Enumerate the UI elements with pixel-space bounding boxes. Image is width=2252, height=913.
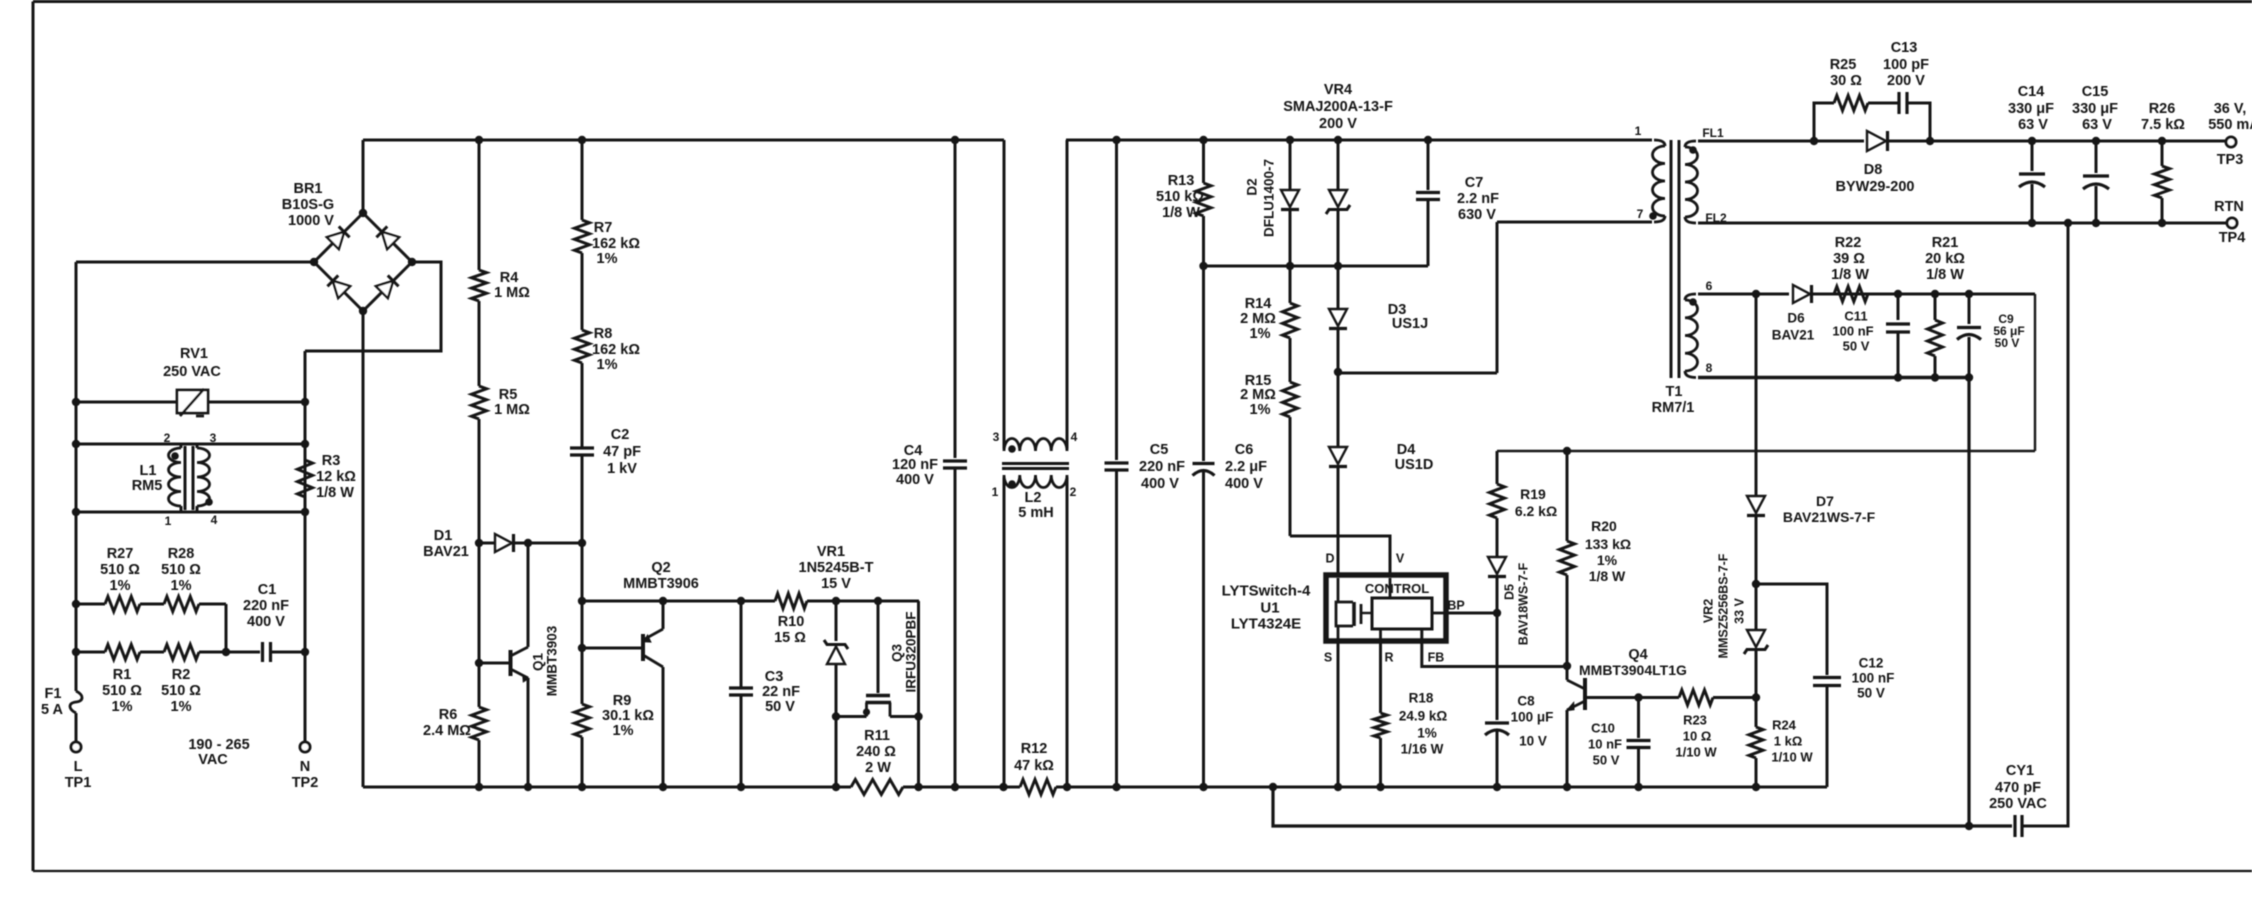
transistor Q2 [582, 647, 643, 650]
svg-text:R22: R22 [1835, 235, 1862, 251]
svg-text:RTN: RTN [2214, 199, 2244, 215]
svg-text:VR4: VR4 [1324, 82, 1352, 98]
svg-text:DFLU1400-7: DFLU1400-7 [1262, 159, 1277, 237]
snubber R25 C13 [1814, 103, 1834, 141]
svg-text:47 kΩ: 47 kΩ [1014, 758, 1054, 774]
wire output return FL2 [1698, 222, 2227, 225]
capacitor C12 [1756, 584, 1827, 675]
svg-text:1/10 W: 1/10 W [1675, 745, 1717, 760]
svg-text:Q4: Q4 [1628, 647, 1647, 663]
svg-text:C6: C6 [1235, 442, 1254, 458]
svg-text:C5: C5 [1150, 442, 1169, 458]
svg-text:1: 1 [992, 485, 999, 499]
svg-text:D7: D7 [1816, 493, 1834, 509]
svg-text:RM7/1: RM7/1 [1652, 400, 1695, 416]
svg-text:120 nF: 120 nF [892, 457, 938, 473]
svg-text:39 Ω: 39 Ω [1833, 251, 1865, 267]
mosfet Q3 [877, 601, 880, 693]
svg-text:510 Ω: 510 Ω [161, 562, 201, 578]
svg-text:47 pF: 47 pF [603, 444, 641, 460]
svg-text:TP2: TP2 [292, 775, 319, 791]
wire N to bridge right arm [305, 262, 441, 351]
svg-text:C3: C3 [765, 669, 784, 685]
svg-text:162 kΩ: 162 kΩ [592, 342, 640, 358]
svg-text:R6: R6 [439, 707, 458, 723]
svg-text:10 nF: 10 nF [1588, 737, 1622, 752]
resistor R3 [304, 444, 307, 460]
svg-text:50 V: 50 V [1593, 753, 1620, 768]
inductor L2 [1003, 140, 1006, 449]
svg-text:10 V: 10 V [1519, 734, 1547, 749]
transistor Q1 [479, 662, 510, 665]
diode D3 [1337, 266, 1340, 308]
border frame [33, 0, 2252, 3]
svg-text:C11: C11 [1844, 309, 1867, 324]
capacitor C6 [1202, 266, 1205, 461]
svg-text:LYT4324E: LYT4324E [1231, 615, 1301, 632]
svg-text:250 VAC: 250 VAC [1989, 796, 2047, 812]
svg-text:Q2: Q2 [651, 560, 670, 576]
resistor R13 [1202, 140, 1205, 183]
svg-text:R10: R10 [778, 614, 805, 630]
capacitor C9 [1968, 294, 1971, 324]
zener diode VR1 [835, 601, 838, 641]
svg-text:CY1: CY1 [2006, 763, 2034, 779]
svg-text:R4: R4 [500, 270, 519, 286]
capacitor C5 [1115, 140, 1118, 460]
svg-text:US1D: US1D [1395, 457, 1434, 473]
svg-text:1/8 W: 1/8 W [1831, 267, 1869, 283]
capacitor C3 [740, 601, 743, 688]
svg-text:7.5 kΩ: 7.5 kΩ [2141, 117, 2185, 133]
svg-text:630 V: 630 V [1458, 207, 1496, 223]
svg-text:F1: F1 [45, 686, 62, 702]
wire L input vertical [75, 262, 78, 691]
svg-text:C7: C7 [1465, 175, 1484, 191]
svg-text:550 mA: 550 mA [2208, 117, 2252, 133]
svg-text:1: 1 [165, 514, 172, 528]
svg-text:1000 V: 1000 V [288, 213, 334, 229]
wire Q2 node [581, 543, 584, 648]
terminal TP1 [71, 742, 81, 752]
capacitor C10 [1634, 693, 1642, 701]
capacitor C11 [1897, 294, 1900, 320]
svg-text:3: 3 [993, 430, 1000, 444]
svg-text:510 kΩ: 510 kΩ [1156, 189, 1204, 205]
svg-text:R23: R23 [1683, 713, 1707, 728]
svg-text:FL1: FL1 [1702, 126, 1724, 140]
svg-text:1 MΩ: 1 MΩ [494, 402, 530, 418]
svg-text:1 kΩ: 1 kΩ [1774, 734, 1803, 749]
svg-text:1%: 1% [171, 578, 192, 594]
svg-text:12 kΩ: 12 kΩ [316, 469, 356, 485]
svg-text:400 V: 400 V [247, 614, 285, 630]
svg-text:1%: 1% [1250, 326, 1271, 342]
svg-text:15 V: 15 V [821, 576, 851, 592]
svg-text:50 V: 50 V [765, 699, 795, 715]
svg-text:R11: R11 [864, 728, 890, 744]
resistor R6 [478, 663, 481, 707]
diode D6 [1793, 285, 1810, 303]
svg-text:63 V: 63 V [2082, 117, 2112, 133]
svg-text:R24: R24 [1772, 718, 1797, 733]
svg-text:1/8 W: 1/8 W [316, 485, 354, 501]
svg-text:1 kV: 1 kV [607, 461, 637, 477]
svg-text:330 μF: 330 μF [2008, 101, 2054, 117]
svg-text:2.4 MΩ: 2.4 MΩ [423, 723, 471, 739]
resistor R2 [164, 645, 199, 660]
resistor R4 [478, 140, 481, 270]
svg-text:1N5245B-T: 1N5245B-T [799, 560, 874, 576]
resistor R5 [478, 301, 481, 386]
svg-text:D4: D4 [1397, 442, 1416, 458]
wire V pin [1290, 536, 1390, 574]
svg-text:1/8 W: 1/8 W [1926, 267, 1964, 283]
svg-text:IRFU320PBF: IRFU320PBF [904, 611, 919, 692]
resistor R10 [775, 594, 807, 609]
svg-text:V: V [1396, 551, 1405, 565]
svg-text:100 μF: 100 μF [1511, 710, 1554, 725]
svg-text:B10S-G: B10S-G [282, 197, 334, 213]
svg-text:200 V: 200 V [1319, 116, 1357, 132]
svg-text:Q1: Q1 [531, 653, 546, 672]
svg-text:5 mH: 5 mH [1018, 505, 1053, 521]
wire top rail right [1066, 139, 1652, 142]
svg-text:R1: R1 [113, 667, 132, 683]
resistor R23 [1639, 696, 1680, 699]
wire gate node [582, 600, 775, 603]
wire S pin [1337, 641, 1340, 787]
wire R28 bend [225, 604, 228, 652]
terminal TP3 [2226, 137, 2236, 147]
resistor R20 [1566, 451, 1569, 541]
resistor R12 [1020, 780, 1056, 795]
svg-text:D: D [1325, 551, 1334, 565]
svg-text:BAV18WS-7-F: BAV18WS-7-F [1516, 562, 1530, 645]
zener diode VR4 [1337, 140, 1340, 190]
svg-text:RV1: RV1 [180, 346, 208, 362]
capacitor CY1 [2013, 815, 2016, 837]
svg-text:R8: R8 [594, 326, 613, 342]
svg-text:1 MΩ: 1 MΩ [494, 285, 530, 301]
svg-text:L: L [74, 759, 83, 775]
svg-text:S: S [1324, 650, 1332, 664]
svg-text:10 Ω: 10 Ω [1683, 729, 1712, 744]
svg-text:R18: R18 [1409, 691, 1434, 706]
svg-text:MMBT3906: MMBT3906 [623, 576, 699, 592]
svg-text:133 kΩ: 133 kΩ [1585, 536, 1631, 552]
svg-text:240 Ω: 240 Ω [856, 744, 896, 760]
wire BP [1446, 612, 1497, 615]
resistor R14 [1289, 266, 1292, 303]
resistor R27 [76, 603, 105, 606]
resistor R26 [2161, 141, 2164, 166]
svg-text:4: 4 [1071, 430, 1078, 444]
svg-text:VAC: VAC [198, 752, 228, 768]
svg-text:5 A: 5 A [41, 702, 64, 718]
wire clamp bottom [1204, 265, 1429, 268]
svg-text:30.1 kΩ: 30.1 kΩ [602, 708, 654, 724]
resistor R19 [1496, 451, 1499, 484]
svg-text:470 pF: 470 pF [1995, 780, 2041, 796]
wire bridge bottom to ground rail [362, 311, 365, 787]
diode D7 [1755, 294, 1758, 495]
wire N input vertical [304, 351, 307, 742]
capacitor C2 [581, 363, 584, 448]
svg-text:US1J: US1J [1392, 316, 1428, 332]
svg-text:L1: L1 [140, 463, 157, 479]
svg-text:22 nF: 22 nF [762, 684, 800, 700]
wire D3 to snubber return [1338, 372, 1497, 375]
svg-text:D6: D6 [1787, 311, 1805, 326]
svg-text:R14: R14 [1245, 296, 1272, 312]
svg-text:D1: D1 [434, 528, 453, 544]
svg-text:R21: R21 [1932, 235, 1959, 251]
svg-text:2: 2 [164, 431, 171, 445]
svg-text:400 V: 400 V [1225, 476, 1263, 492]
svg-text:100 nF: 100 nF [1832, 324, 1873, 339]
svg-text:SMAJ200A-13-F: SMAJ200A-13-F [1283, 99, 1393, 115]
diode D2 [1289, 140, 1292, 190]
svg-text:190 - 265: 190 - 265 [188, 737, 249, 753]
terminal TP4 [2227, 218, 2237, 228]
svg-text:R20: R20 [1591, 518, 1617, 534]
svg-text:2.2 nF: 2.2 nF [1457, 191, 1499, 207]
svg-text:15 Ω: 15 Ω [774, 630, 806, 646]
capacitor C4 [954, 140, 957, 458]
wire top rail left [363, 139, 1004, 142]
wire lower return [1273, 787, 2012, 826]
svg-text:MMSZ5256BS-7-F: MMSZ5256BS-7-F [1716, 553, 1730, 658]
svg-text:C10: C10 [1591, 721, 1615, 736]
diode D4 [1337, 372, 1340, 446]
svg-text:63 V: 63 V [2018, 117, 2048, 133]
svg-text:R28: R28 [168, 546, 195, 562]
svg-text:2 MΩ: 2 MΩ [1240, 387, 1276, 403]
resistor R15 [1289, 338, 1292, 382]
svg-text:50 V: 50 V [1843, 339, 1870, 354]
svg-text:TP3: TP3 [2217, 152, 2244, 168]
capacitor C14 [2031, 141, 2034, 171]
svg-text:1%: 1% [171, 699, 192, 715]
svg-text:1%: 1% [110, 578, 131, 594]
svg-text:1%: 1% [597, 251, 618, 267]
svg-text:R3: R3 [322, 453, 341, 469]
svg-text:R12: R12 [1021, 741, 1048, 757]
wire aux return [1698, 376, 1969, 379]
svg-text:C12: C12 [1859, 656, 1884, 671]
resistor R18 [1379, 641, 1382, 713]
svg-text:50 V: 50 V [1857, 686, 1885, 701]
svg-text:24.9 kΩ: 24.9 kΩ [1399, 709, 1448, 724]
diode D5 [1496, 518, 1499, 556]
svg-text:220 nF: 220 nF [1139, 459, 1185, 475]
svg-text:250 VAC: 250 VAC [163, 364, 221, 380]
svg-text:TP1: TP1 [65, 775, 92, 791]
svg-text:100 nF: 100 nF [1852, 671, 1895, 686]
wire FB pin [1422, 630, 1567, 667]
transformer T1 [1670, 140, 1673, 378]
svg-text:MMBT3903: MMBT3903 [545, 625, 560, 696]
svg-text:R7: R7 [594, 220, 613, 236]
svg-text:BP: BP [1447, 598, 1464, 612]
svg-text:162 kΩ: 162 kΩ [592, 236, 640, 252]
svg-text:R: R [1384, 650, 1393, 664]
svg-text:BAV21WS-7-F: BAV21WS-7-F [1783, 509, 1876, 525]
wire aux positive [1698, 293, 1789, 296]
svg-text:C13: C13 [1891, 40, 1918, 56]
fuse F1 [70, 691, 82, 713]
svg-text:D2: D2 [1245, 178, 1260, 195]
capacitor C1 [259, 651, 260, 654]
wire output positive [1698, 140, 1864, 143]
svg-text:400 V: 400 V [896, 472, 934, 488]
wire aux return down [1967, 378, 1970, 827]
svg-text:1/16 W: 1/16 W [1401, 742, 1444, 757]
resistor R22 [1834, 287, 1868, 302]
svg-text:MMBT3904LT1G: MMBT3904LT1G [1579, 662, 1687, 678]
svg-text:VR2: VR2 [1701, 599, 1715, 623]
svg-text:510 Ω: 510 Ω [100, 562, 140, 578]
svg-text:BAV21: BAV21 [423, 544, 469, 560]
svg-text:3: 3 [210, 431, 217, 445]
svg-text:1%: 1% [597, 357, 618, 373]
svg-text:6.2 kΩ: 6.2 kΩ [1515, 503, 1557, 519]
svg-text:CONTROL: CONTROL [1365, 581, 1429, 596]
bridge rectifier BR1 [314, 213, 363, 262]
svg-text:C15: C15 [2082, 84, 2109, 100]
svg-text:R27: R27 [107, 546, 134, 562]
choke L1 [76, 443, 305, 446]
wire bias feed right [2034, 294, 2036, 451]
svg-text:D8: D8 [1864, 162, 1883, 178]
svg-text:N: N [300, 759, 310, 775]
svg-text:220 nF: 220 nF [243, 598, 289, 614]
capacitor C8 [1496, 613, 1499, 720]
svg-text:C14: C14 [2018, 84, 2045, 100]
svg-text:7: 7 [1637, 207, 1644, 221]
svg-text:R19: R19 [1520, 486, 1546, 502]
resistor R24 [1755, 698, 1758, 728]
svg-text:510 Ω: 510 Ω [102, 683, 142, 699]
svg-text:2: 2 [1070, 485, 1077, 499]
svg-text:BAV21: BAV21 [1772, 328, 1815, 343]
wire T1 pin7 [1497, 221, 1652, 224]
resistor R7 [581, 140, 584, 220]
svg-text:1/10 W: 1/10 W [1771, 750, 1813, 765]
svg-text:BR1: BR1 [293, 181, 322, 197]
resistor R21 [1934, 294, 1937, 320]
wire bottom rail [363, 786, 851, 789]
resistor R11 [851, 780, 903, 795]
svg-text:33 V: 33 V [1732, 597, 1746, 623]
transistor Q4 [1566, 666, 1569, 680]
svg-text:1%: 1% [613, 723, 634, 739]
svg-text:1/8 W: 1/8 W [1589, 568, 1626, 584]
svg-text:R26: R26 [2149, 101, 2176, 117]
diode D1 [479, 542, 495, 545]
zener diode VR2 [1755, 584, 1758, 629]
svg-text:200 V: 200 V [1887, 73, 1925, 89]
capacitor C7 [1427, 140, 1430, 190]
varistor RV1 [76, 401, 177, 404]
svg-text:4: 4 [211, 513, 218, 527]
svg-text:30 Ω: 30 Ω [1830, 73, 1862, 89]
svg-text:1%: 1% [112, 699, 133, 715]
svg-text:510 Ω: 510 Ω [161, 683, 201, 699]
resistor R1 [76, 651, 105, 654]
svg-text:D5: D5 [1502, 584, 1516, 600]
svg-text:R2: R2 [172, 667, 191, 683]
svg-text:T1: T1 [1666, 384, 1683, 400]
svg-text:20 kΩ: 20 kΩ [1925, 251, 1965, 267]
wire bias feed [1497, 450, 2035, 452]
svg-text:C2: C2 [611, 427, 630, 443]
svg-text:U1: U1 [1260, 599, 1279, 616]
svg-text:BYW29-200: BYW29-200 [1836, 179, 1915, 195]
svg-text:2.2 μF: 2.2 μF [1225, 459, 1267, 475]
resistor R28 [164, 597, 199, 612]
svg-text:100 pF: 100 pF [1883, 57, 1929, 73]
svg-text:6: 6 [1706, 279, 1713, 293]
svg-text:VR1: VR1 [817, 544, 845, 560]
svg-text:R9: R9 [613, 693, 632, 709]
svg-text:1: 1 [1635, 124, 1642, 138]
svg-text:L2: L2 [1025, 490, 1042, 506]
svg-text:FB: FB [1428, 650, 1445, 664]
resistor R8 [581, 253, 584, 330]
svg-text:R13: R13 [1168, 173, 1195, 189]
svg-text:2 MΩ: 2 MΩ [1240, 311, 1276, 327]
terminal TP2 [300, 742, 310, 752]
svg-text:1%: 1% [1417, 726, 1437, 741]
wire bridge top to rail [362, 140, 365, 213]
capacitor C15 [2095, 141, 2098, 173]
svg-text:Q3: Q3 [890, 644, 905, 663]
svg-text:8: 8 [1706, 361, 1713, 375]
svg-text:36 V,: 36 V, [2214, 101, 2247, 117]
IC U1 LYT4324E [1326, 575, 1446, 641]
svg-text:1%: 1% [1250, 402, 1271, 418]
svg-text:50 V: 50 V [1995, 336, 2020, 350]
svg-text:R25: R25 [1830, 57, 1857, 73]
diode D8 [1867, 131, 1886, 151]
svg-text:R5: R5 [499, 387, 518, 403]
resistor R9 [581, 648, 584, 704]
svg-text:RM5: RM5 [132, 478, 163, 494]
svg-text:1%: 1% [1597, 552, 1618, 568]
svg-text:330 μF: 330 μF [2072, 101, 2118, 117]
svg-text:TP4: TP4 [2219, 230, 2246, 246]
svg-text:C1: C1 [258, 582, 277, 598]
svg-text:2 W: 2 W [865, 760, 891, 776]
wire bridge left arm [76, 261, 314, 264]
svg-text:C8: C8 [1517, 694, 1535, 709]
wire D1 node [478, 543, 481, 663]
svg-text:LYTSwitch-4: LYTSwitch-4 [1222, 582, 1311, 599]
svg-text:1/8 W: 1/8 W [1162, 205, 1200, 221]
svg-text:400 V: 400 V [1141, 476, 1179, 492]
